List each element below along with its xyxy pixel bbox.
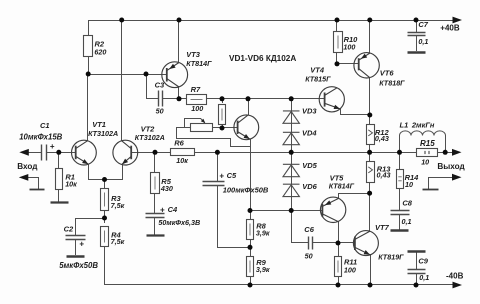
svg-text:-40В: -40В (446, 272, 464, 281)
svg-text:VD5: VD5 (302, 161, 317, 170)
svg-text:С8: С8 (402, 199, 412, 208)
svg-text:100мкФх50В: 100мкФх50В (223, 185, 269, 194)
svg-text:С4: С4 (168, 205, 178, 214)
svg-text:С9: С9 (418, 256, 428, 265)
svg-text:КТ815Г: КТ815Г (305, 74, 331, 83)
svg-text:Вход: Вход (17, 162, 38, 171)
svg-text:10: 10 (405, 180, 413, 189)
svg-text:0,1: 0,1 (402, 217, 412, 226)
svg-text:7,5к: 7,5к (111, 201, 125, 210)
svg-text:50: 50 (156, 107, 164, 116)
svg-text:VD1-VD6 КД102А: VD1-VD6 КД102А (229, 54, 296, 63)
svg-text:3,9к: 3,9к (256, 228, 270, 237)
svg-text:50: 50 (305, 252, 313, 261)
svg-text:R7: R7 (191, 85, 201, 94)
svg-text:100: 100 (343, 42, 355, 51)
svg-text:+40В: +40В (440, 24, 460, 33)
svg-text:КТ3102А: КТ3102А (135, 133, 165, 142)
svg-text:2мкГн: 2мкГн (411, 120, 435, 129)
svg-text:0,43: 0,43 (377, 171, 391, 180)
svg-text:КТ814Г: КТ814Г (186, 59, 212, 68)
svg-text:VT2: VT2 (141, 124, 156, 133)
svg-text:0,1: 0,1 (418, 37, 428, 46)
svg-text:VD6: VD6 (302, 182, 317, 191)
svg-text:С7: С7 (418, 20, 428, 29)
svg-text:VT7: VT7 (375, 223, 390, 232)
svg-text:+: + (160, 205, 165, 214)
svg-text:С1: С1 (40, 121, 50, 130)
svg-text:+: + (219, 172, 224, 181)
svg-text:100: 100 (344, 266, 356, 275)
svg-text:620: 620 (94, 47, 106, 56)
svg-text:10к: 10к (176, 156, 188, 165)
svg-text:10к: 10к (65, 180, 77, 189)
svg-text:+: + (79, 239, 84, 248)
svg-text:R6: R6 (174, 139, 184, 148)
svg-text:10мкФх15В: 10мкФх15В (19, 132, 62, 141)
svg-text:VD3: VD3 (302, 107, 317, 116)
svg-text:5мкФх50В: 5мкФх50В (59, 261, 98, 270)
svg-text:С3: С3 (155, 80, 165, 89)
svg-text:КТ814Г: КТ814Г (329, 182, 355, 191)
svg-text:Выход: Выход (437, 162, 465, 171)
svg-text:50мкФх6,3В: 50мкФх6,3В (158, 218, 200, 227)
svg-text:R15: R15 (420, 139, 435, 148)
svg-text:КТ818Г: КТ818Г (379, 79, 405, 88)
svg-text:С2: С2 (64, 224, 74, 233)
svg-text:430: 430 (160, 184, 173, 193)
svg-text:10: 10 (421, 157, 429, 166)
svg-text:L1: L1 (400, 120, 409, 129)
svg-text:VD4: VD4 (302, 128, 317, 137)
svg-text:0,43: 0,43 (375, 134, 389, 143)
svg-text:КТ819Г: КТ819Г (378, 253, 404, 262)
svg-text:VT1: VT1 (92, 120, 106, 129)
svg-text:100: 100 (191, 104, 203, 113)
svg-text:+: + (50, 142, 55, 151)
svg-text:КТ3102А: КТ3102А (88, 129, 118, 138)
svg-text:3,9к: 3,9к (256, 265, 270, 274)
svg-text:С6: С6 (304, 225, 314, 234)
svg-text:7,5к: 7,5к (111, 237, 125, 246)
svg-text:VT6: VT6 (380, 68, 395, 77)
svg-text:С5: С5 (227, 171, 237, 180)
svg-text:0,1: 0,1 (419, 273, 429, 282)
